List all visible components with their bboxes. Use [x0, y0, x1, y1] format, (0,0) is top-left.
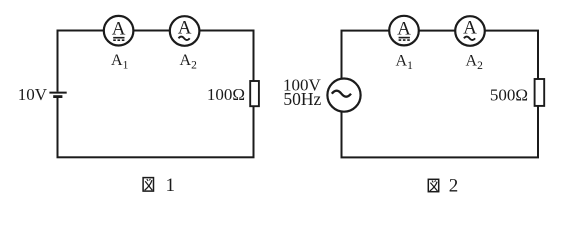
wire loop circuit 2 — [342, 31, 539, 158]
svg-text:A: A — [112, 18, 126, 39]
ammeter A2 circuit 2 — [455, 16, 485, 46]
caption zu 1 — [143, 178, 153, 192]
AC source G1 — [327, 79, 360, 112]
ammeter A1 circuit 2 — [389, 16, 419, 46]
svg-text:2: 2 — [449, 176, 459, 197]
ammeter A1 circuit 1 — [104, 16, 134, 46]
battery B1 short plate — [53, 95, 62, 98]
wire loop circuit 1 — [58, 31, 254, 158]
resistor R1 100ohm — [250, 81, 259, 106]
svg-text:50Hz: 50Hz — [283, 89, 321, 109]
svg-text:A: A — [397, 18, 411, 39]
svg-text:1: 1 — [166, 175, 176, 196]
svg-text:A: A — [463, 18, 477, 39]
resistor R2 500ohm — [535, 79, 545, 106]
svg-text:A: A — [178, 18, 192, 39]
svg-text:10V: 10V — [18, 85, 48, 104]
svg-text:100Ω: 100Ω — [207, 85, 245, 104]
svg-text:500Ω: 500Ω — [490, 85, 528, 104]
battery B1 gap — [54, 92, 62, 98]
ammeter A2 circuit 1 — [170, 16, 200, 46]
battery B1 long plate — [49, 92, 66, 94]
caption zu 2 — [428, 179, 438, 191]
